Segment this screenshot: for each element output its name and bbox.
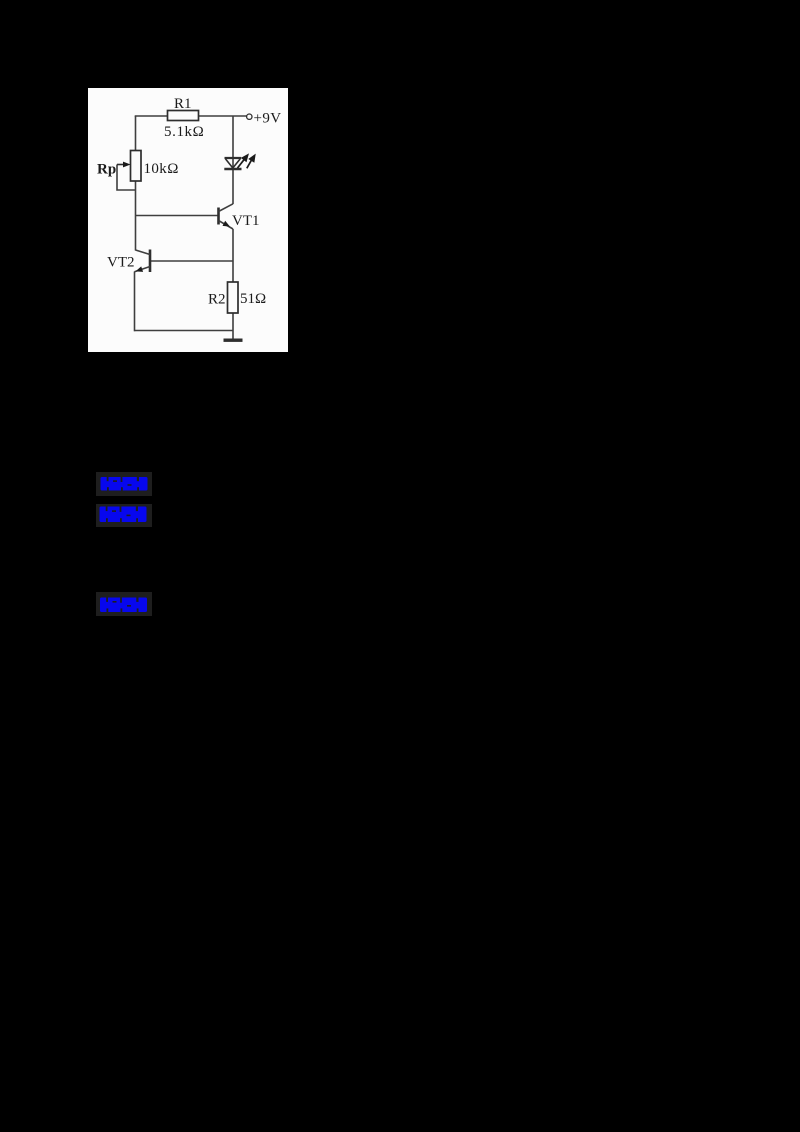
resistor R1 body xyxy=(168,111,199,121)
svg-text:R2: R2 xyxy=(208,292,226,308)
potentiometer Rp body xyxy=(131,151,142,182)
svg-text:R1: R1 xyxy=(174,96,192,112)
wire left vertical (top rail down through Rp to VT2 collector) xyxy=(135,116,137,251)
wire top rail from left vertical to +9V terminal xyxy=(135,115,247,117)
link block 1 xyxy=(96,472,152,496)
link block 3 xyxy=(96,592,152,616)
wire right vertical (rail to LED anode) xyxy=(232,116,234,168)
power terminal circle xyxy=(247,114,252,119)
svg-text:5.1kΩ: 5.1kΩ xyxy=(164,124,204,140)
LED light arrows xyxy=(238,155,255,168)
svg-text:Rp: Rp xyxy=(97,162,116,178)
wire VT2 emitter vertical down left side xyxy=(134,272,136,332)
wire LED cathode down to VT1 collector xyxy=(232,170,234,204)
schematic white panel xyxy=(88,88,288,352)
wire VT1 emitter vertical down to R2 xyxy=(232,229,234,282)
svg-text:10kΩ: 10kΩ xyxy=(144,161,179,177)
wire Rp wiper loop xyxy=(117,165,136,191)
transistor VT2 xyxy=(135,250,151,273)
wire VT1 base wire xyxy=(136,215,219,217)
wire bottom rail xyxy=(135,330,234,332)
LED D1 xyxy=(224,158,241,169)
svg-text:VT1: VT1 xyxy=(232,213,260,229)
potentiometer Rp wiper arrow xyxy=(117,162,131,168)
link block 2 xyxy=(96,504,152,527)
ground xyxy=(224,339,243,342)
wire VT2 base wire to VT1 emitter node xyxy=(150,260,233,262)
svg-text:51Ω: 51Ω xyxy=(240,291,266,307)
resistor R2 body xyxy=(228,282,239,313)
transistor VT1 xyxy=(219,204,234,229)
wire R2 bottom to ground xyxy=(232,313,234,339)
svg-text:VT2: VT2 xyxy=(107,255,135,271)
svg-text:+9V: +9V xyxy=(254,111,282,127)
